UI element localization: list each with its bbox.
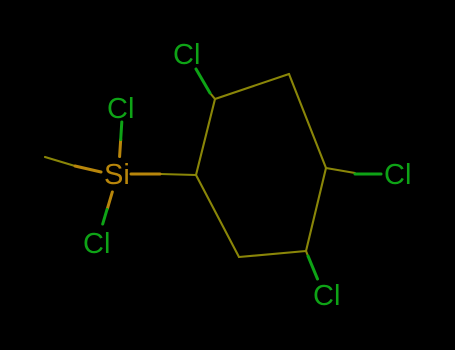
wire Si-C1 bond Si half <box>131 173 160 176</box>
svg-text:Si: Si <box>104 159 130 191</box>
wire Si-Cl(bottom) bond Cl half <box>103 210 107 225</box>
wire Si-Cl(top) bond Si half <box>120 140 121 157</box>
svg-text:Cl: Cl <box>83 228 110 260</box>
silicon bonds (Si halves) <box>75 140 160 210</box>
wire Si-Cl(bottom) bond Si half <box>107 192 112 209</box>
wire Si-C1 bond carbon half <box>160 174 196 175</box>
wire Si-Cl(top) bond Cl half <box>121 122 122 140</box>
wire C4-Cl bond Cl half <box>355 173 381 176</box>
benzene ring C1-C6 (carbon bonds) <box>45 74 355 257</box>
wire C2-Cl bond Cl half <box>196 69 210 93</box>
wire ring bond C6-C1 <box>196 175 239 257</box>
wire C2-Cl bond carbon half <box>210 93 215 99</box>
wire C5-Cl bond carbon half <box>306 251 308 256</box>
wire ring bond C3-C4 <box>289 74 326 168</box>
svg-text:Cl: Cl <box>173 39 200 71</box>
wire ring bond C4-C5 <box>306 168 326 251</box>
chlorine bond halves (green) <box>103 69 381 279</box>
svg-text:Cl: Cl <box>384 159 411 191</box>
wire Si-CH3 bond Si half <box>75 166 101 172</box>
svg-text:Cl: Cl <box>313 280 340 312</box>
wire ring bond C2-C3 <box>215 74 289 99</box>
wire C4-Cl bond carbon half <box>326 168 355 173</box>
wire Si-CH3 bond carbon half <box>45 157 75 166</box>
wire ring bond C5-C6 <box>239 251 306 257</box>
svg-text:Cl: Cl <box>107 93 134 125</box>
wire C5-Cl bond Cl half <box>308 256 318 279</box>
wire ring bond C1-C2 <box>196 99 215 175</box>
atom labels <box>83 39 411 312</box>
